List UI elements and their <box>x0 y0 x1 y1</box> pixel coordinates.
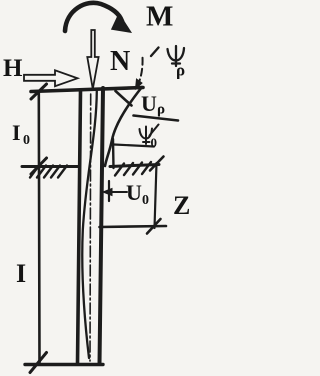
svg-text:0: 0 <box>151 135 158 150</box>
svg-text:ρ: ρ <box>176 61 185 80</box>
pile right edge <box>100 88 104 364</box>
svg-text:ρ: ρ <box>157 102 165 118</box>
svg-text:0: 0 <box>23 133 30 148</box>
svg-text:M: M <box>146 1 173 33</box>
pile bottom line <box>25 363 103 366</box>
z bottom line <box>100 226 167 227</box>
ground tick on dimension line <box>31 158 47 174</box>
svg-text:N: N <box>110 46 130 77</box>
svg-text:I: I <box>16 259 26 288</box>
svg-text:U: U <box>141 91 157 116</box>
moment arrow M <box>65 3 122 31</box>
cap tick on dimension line <box>31 84 47 99</box>
psi-rho symbol <box>168 46 185 66</box>
svg-text:H: H <box>3 55 23 82</box>
ground hatch left <box>30 166 67 178</box>
force H arrow (outline) <box>24 70 78 86</box>
moment arrowhead <box>112 14 131 32</box>
U0 vertical reference <box>108 181 110 201</box>
z top tick <box>150 157 164 171</box>
rotated axis diagonal <box>105 87 142 166</box>
dashed deflected axis above cap <box>138 57 143 86</box>
pile left edge <box>78 91 81 364</box>
U-rho level line <box>134 116 179 121</box>
vertical reference at ground <box>112 139 115 168</box>
dash toward psi-rho <box>151 48 159 57</box>
svg-text:U: U <box>126 180 142 205</box>
pile axis (dash-dot) <box>89 94 92 361</box>
short diagonal at cap <box>116 91 132 106</box>
arrowhead of dashed axis <box>136 79 143 89</box>
svg-text:0: 0 <box>142 193 149 208</box>
pile cap line <box>31 88 143 92</box>
svg-text:I: I <box>12 120 21 145</box>
psi0 symbol <box>140 127 153 145</box>
deflected pile axis curve <box>82 91 97 358</box>
svg-text:Z: Z <box>173 191 190 220</box>
ground hatch right <box>115 162 151 176</box>
psi0 baseline <box>114 145 154 147</box>
ground line left <box>22 165 78 168</box>
z dimension line <box>155 163 157 228</box>
tick under U-rho line <box>150 125 159 136</box>
ground line right <box>110 165 159 167</box>
z bottom tick <box>147 219 161 234</box>
force N arrow (outline) <box>87 30 98 89</box>
bottom tick on dimension line <box>30 353 47 373</box>
U0 arrow <box>109 191 127 193</box>
left dimension line <box>37 91 40 364</box>
